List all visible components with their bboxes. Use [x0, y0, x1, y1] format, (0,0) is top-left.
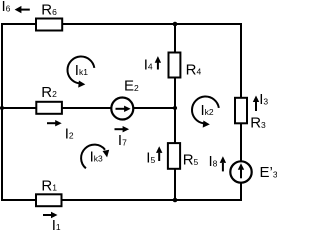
- svg-text:I5: I5: [146, 150, 155, 167]
- svg-text:R2: R2: [41, 84, 57, 101]
- svg-text:I8: I8: [209, 153, 218, 170]
- svg-text:I3: I3: [259, 91, 268, 108]
- svg-text:E’3: E’3: [260, 164, 278, 181]
- svg-text:I6: I6: [2, 0, 11, 15]
- svg-text:Ik3: Ik3: [90, 148, 103, 165]
- svg-text:R6: R6: [41, 2, 57, 19]
- svg-text:I4: I4: [144, 56, 153, 73]
- svg-text:I7: I7: [118, 132, 127, 149]
- svg-text:R4: R4: [186, 61, 202, 78]
- svg-text:R3: R3: [250, 115, 266, 132]
- svg-text:I1: I1: [52, 217, 61, 231]
- svg-text:Ik1: Ik1: [75, 62, 88, 79]
- svg-text:Ik2: Ik2: [201, 102, 214, 119]
- svg-text:I2: I2: [65, 125, 74, 142]
- svg-text:E2: E2: [124, 78, 139, 95]
- svg-text:R1: R1: [41, 177, 57, 194]
- svg-text:R5: R5: [183, 152, 199, 169]
